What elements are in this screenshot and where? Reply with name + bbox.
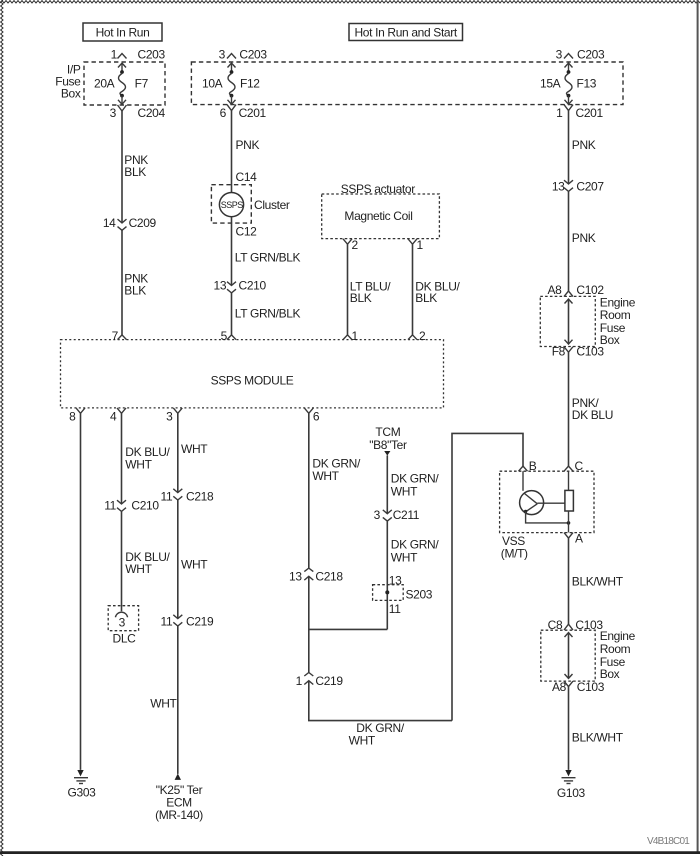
connector C203 pin 1 (above F7) xyxy=(111,48,166,62)
label DK GRN/WHT xyxy=(312,457,361,484)
wire C204 to C209 xyxy=(121,111,123,223)
wire junction to S203 xyxy=(309,628,388,630)
svg-text:Magnetic Coil: Magnetic Coil xyxy=(344,209,412,223)
svg-text:Cluster: Cluster xyxy=(254,198,290,212)
svg-text:A8: A8 xyxy=(552,680,567,694)
wire through upper engine room fuse box with arrows xyxy=(565,299,573,344)
connector C218 pin 11 (in-line) xyxy=(161,489,214,504)
I/P fuse box (F7) dashed outline xyxy=(55,62,165,105)
svg-text:C218: C218 xyxy=(186,489,214,503)
cluster dashed box with SSPS indicator xyxy=(211,185,290,223)
svg-text:Box: Box xyxy=(61,87,81,101)
wire C201 to cluster xyxy=(231,111,233,193)
svg-text:F13: F13 xyxy=(577,77,597,91)
wire module pin 8 to G303 xyxy=(80,413,82,770)
svg-text:BLK: BLK xyxy=(124,165,146,179)
magnetic coil dashed box xyxy=(322,194,440,239)
svg-text:TCM: TCM xyxy=(375,425,400,439)
svg-text:C211: C211 xyxy=(393,508,420,522)
svg-text:F7: F7 xyxy=(135,77,149,91)
connector C103 pin A8 (below lower fuse box) xyxy=(552,680,605,694)
connector C203 pin 3 (above F13) xyxy=(556,48,605,62)
wire C210 to SSPS module pin 5 xyxy=(231,293,233,335)
svg-text:C14: C14 xyxy=(236,170,258,184)
svg-text:11: 11 xyxy=(104,499,116,513)
resistor (VSS pull-up) xyxy=(565,490,574,511)
svg-text:14: 14 xyxy=(103,216,116,230)
svg-text:WHT: WHT xyxy=(181,442,208,456)
svg-text:11: 11 xyxy=(161,615,173,629)
label DK GRN/WHT xyxy=(391,538,440,565)
wire TCM to C211 xyxy=(386,455,388,513)
fuse F7 20A xyxy=(94,63,149,104)
svg-text:6: 6 xyxy=(220,106,227,120)
ECM terminal K25 xyxy=(155,774,203,823)
svg-text:A8: A8 xyxy=(548,283,563,297)
splice S203 xyxy=(373,585,433,602)
svg-text:1: 1 xyxy=(296,674,303,688)
svg-text:BLK: BLK xyxy=(415,291,437,305)
svg-text:C201: C201 xyxy=(239,106,267,120)
svg-text:LT GRN/BLK: LT GRN/BLK xyxy=(235,307,301,321)
wire C218 to C219 with S203 tee xyxy=(308,576,310,672)
svg-text:V4B18C01: V4B18C01 xyxy=(647,836,690,847)
wire module pin 6 to C218 xyxy=(308,413,310,568)
svg-text:WHT: WHT xyxy=(125,457,152,471)
svg-text:13: 13 xyxy=(289,570,302,584)
junction dot xyxy=(567,521,571,525)
svg-text:(MR-140): (MR-140) xyxy=(155,808,203,822)
wire module pin 3 to C218 xyxy=(177,413,179,492)
svg-text:Hot In Run: Hot In Run xyxy=(96,25,150,39)
svg-text:WHT: WHT xyxy=(150,697,177,711)
label PNK/BLK xyxy=(124,272,148,298)
svg-text:G103: G103 xyxy=(557,786,586,800)
module pin 8 xyxy=(69,408,85,424)
connector C201 pin 1 (below F13) xyxy=(556,105,603,120)
connector C203 pin 3 (above F12) xyxy=(219,48,268,62)
label DK BLU/WHT xyxy=(125,445,170,471)
svg-text:S203: S203 xyxy=(406,587,433,601)
wire C218 to C219 xyxy=(177,500,179,619)
svg-text:DLC: DLC xyxy=(113,632,137,646)
DLC connector box pin 3 xyxy=(108,606,138,646)
label DK GRN/WHT xyxy=(391,472,440,499)
svg-text:3: 3 xyxy=(374,508,381,522)
svg-text:C203: C203 xyxy=(577,48,605,62)
wire C219 to ECM xyxy=(177,626,179,774)
wire C103 to G103 xyxy=(568,687,570,770)
connector C210 pin 13 (in-line) xyxy=(214,279,267,293)
svg-text:DK BLU: DK BLU xyxy=(572,408,613,422)
connector C103 pin C8 (into engine room fuse box) xyxy=(548,618,604,632)
I/P fuse box (F12,F13) wide dashed outline xyxy=(191,62,623,105)
coil pin 2 xyxy=(343,238,359,252)
label DK BLU/WHT xyxy=(125,550,170,576)
wire module pin 4 to C210 xyxy=(121,413,123,504)
svg-text:C203: C203 xyxy=(138,48,166,62)
connector C102 pin A8 (into engine room fuse box) xyxy=(548,283,605,297)
svg-text:Hot In Run and Start: Hot In Run and Start xyxy=(354,25,457,39)
label DK GRN/WHT xyxy=(349,721,405,748)
svg-text:C210: C210 xyxy=(131,499,159,513)
svg-text:WHT: WHT xyxy=(181,557,208,571)
svg-text:11: 11 xyxy=(161,489,173,503)
svg-text:"B8"Ter: "B8"Ter xyxy=(369,438,407,452)
svg-text:DK GRN/: DK GRN/ xyxy=(356,721,405,735)
wire C219 down and right to riser xyxy=(309,681,452,721)
wire C207 to C102 xyxy=(568,191,570,291)
label LT BLU/BLK xyxy=(350,279,391,305)
svg-text:A: A xyxy=(575,532,583,546)
engine room fuse box (lower) xyxy=(541,629,636,681)
svg-text:1: 1 xyxy=(352,329,359,343)
svg-text:SSPS: SSPS xyxy=(221,200,244,210)
svg-text:BLK/WHT: BLK/WHT xyxy=(572,731,624,745)
connector C209 pin 14 (in-line) xyxy=(103,216,157,230)
wire VSS pin A to C8 C103 xyxy=(568,538,570,624)
label box: Hot In Run xyxy=(83,23,162,41)
svg-text:C207: C207 xyxy=(576,180,604,194)
svg-text:3: 3 xyxy=(119,616,126,630)
svg-text:13: 13 xyxy=(214,279,227,293)
module pin 3 xyxy=(166,408,182,424)
wire coil pin1 to module pin 2 xyxy=(412,244,414,335)
svg-text:C103: C103 xyxy=(576,345,604,359)
svg-text:F12: F12 xyxy=(240,77,260,91)
svg-text:1: 1 xyxy=(556,106,563,120)
connector C218 pin 13 (in-line up) xyxy=(289,568,343,584)
svg-text:C201: C201 xyxy=(576,106,604,120)
ground G103 xyxy=(557,770,586,800)
svg-text:5: 5 xyxy=(221,329,228,343)
svg-text:(M/T): (M/T) xyxy=(501,547,528,561)
VSS pin A xyxy=(564,532,583,546)
TCM terminal B8 xyxy=(369,425,407,456)
svg-text:10A: 10A xyxy=(202,77,223,91)
wire C211 to S203 junction xyxy=(386,521,388,629)
connector C219 pin 11 (in-line) xyxy=(161,615,214,629)
VSS pin B xyxy=(519,459,537,473)
svg-text:F8: F8 xyxy=(552,345,566,359)
wire transistor to resistor xyxy=(537,502,565,504)
svg-text:C219: C219 xyxy=(315,674,343,688)
svg-text:C209: C209 xyxy=(129,216,157,230)
svg-text:3: 3 xyxy=(166,410,173,424)
svg-text:1: 1 xyxy=(111,48,118,62)
wire transistor emitter to junction xyxy=(526,511,569,523)
svg-text:6: 6 xyxy=(313,410,320,424)
svg-text:LT GRN/BLK: LT GRN/BLK xyxy=(235,251,301,265)
svg-text:C218: C218 xyxy=(315,570,343,584)
wire C201 to C207 xyxy=(568,111,570,184)
module pin 7 xyxy=(112,329,127,343)
svg-text:BLK: BLK xyxy=(124,284,146,298)
label box: Hot In Run and Start xyxy=(349,24,463,41)
VSS internal wire from B xyxy=(522,471,524,491)
coil pin 1 xyxy=(408,238,424,252)
svg-text:C103: C103 xyxy=(577,680,605,694)
label PNK/BLK xyxy=(124,153,148,179)
svg-text:2: 2 xyxy=(352,238,359,252)
ground G303 xyxy=(68,770,97,799)
svg-text:8: 8 xyxy=(69,410,76,424)
svg-text:PNK: PNK xyxy=(572,138,596,152)
connector C204 pin 3 (below F7 box) xyxy=(110,105,166,120)
wire riser up to VSS pin B feed xyxy=(452,433,523,720)
svg-text:C204: C204 xyxy=(138,106,166,120)
svg-text:15A: 15A xyxy=(540,77,561,91)
fuse F13 15A xyxy=(540,63,597,104)
connector C103 pin F8 (below engine room fuse box) xyxy=(552,345,605,359)
svg-text:C12: C12 xyxy=(236,225,258,239)
wire cluster to C210 xyxy=(231,217,233,286)
connector C210 pin 11 (in-line) xyxy=(104,499,159,513)
VSS pin C xyxy=(564,459,584,473)
wire C103 to VSS pin C xyxy=(568,352,570,466)
wire C210 to DLC xyxy=(121,511,123,611)
svg-text:13: 13 xyxy=(389,574,402,588)
svg-text:G303: G303 xyxy=(68,785,97,799)
wire C209 to SSPS module pin 7 xyxy=(121,230,123,335)
svg-text:11: 11 xyxy=(389,602,401,616)
wire through lower engine room fuse box with arrows xyxy=(565,633,573,679)
svg-text:PNK: PNK xyxy=(572,231,596,245)
svg-text:3: 3 xyxy=(219,48,226,62)
svg-text:1: 1 xyxy=(417,238,424,252)
svg-text:BLK/WHT: BLK/WHT xyxy=(572,574,624,588)
transistor Q (VSS output) xyxy=(520,491,544,515)
module pin 4 xyxy=(110,408,126,424)
svg-text:WHT: WHT xyxy=(125,562,152,576)
VSS internal wire C through resistor xyxy=(568,471,570,532)
svg-text:20A: 20A xyxy=(94,77,115,91)
label DK BLU/BLK xyxy=(415,279,460,305)
VSS (M/T) dashed box xyxy=(500,471,594,561)
svg-text:3: 3 xyxy=(110,106,117,120)
connector C211 pin 3 (in-line) xyxy=(374,508,420,522)
svg-text:13: 13 xyxy=(552,180,565,194)
connector C207 pin 13 (in-line) xyxy=(552,180,605,194)
svg-text:C203: C203 xyxy=(239,48,267,62)
module pin 1 xyxy=(343,329,359,343)
svg-text:SSPS MODULE: SSPS MODULE xyxy=(211,373,294,387)
label PNK/DK BLU xyxy=(572,396,613,422)
svg-text:WHT: WHT xyxy=(391,550,418,564)
svg-text:2: 2 xyxy=(419,329,426,343)
svg-text:C219: C219 xyxy=(186,615,214,629)
module pin 6 xyxy=(304,408,320,424)
svg-text:WHT: WHT xyxy=(312,469,339,483)
svg-text:4: 4 xyxy=(110,410,117,424)
module pin 2 xyxy=(408,329,426,343)
svg-text:BLK: BLK xyxy=(350,291,372,305)
engine room fuse box (upper) xyxy=(540,295,635,347)
svg-text:C210: C210 xyxy=(239,279,267,293)
wire coil pin2 to module pin 1 xyxy=(347,244,349,335)
svg-text:WHT: WHT xyxy=(349,734,376,748)
svg-text:7: 7 xyxy=(112,329,119,343)
svg-text:PNK: PNK xyxy=(236,138,260,152)
module pin 5 xyxy=(221,329,236,343)
svg-text:3: 3 xyxy=(556,48,563,62)
SSPS module box xyxy=(61,340,444,408)
connector C201 pin 6 (below F12) xyxy=(220,105,267,120)
svg-text:WHT: WHT xyxy=(391,484,418,498)
connector C219 pin 1 (in-line up) xyxy=(296,673,344,689)
fuse F12 10A xyxy=(202,63,260,104)
